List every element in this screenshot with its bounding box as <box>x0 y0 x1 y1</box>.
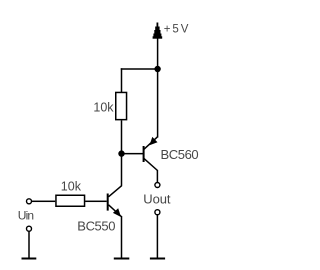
wire: Q1 collector vertical up to junction <box>121 154 123 186</box>
terminal Uout upper <box>155 183 160 188</box>
svg-text:BC560: BC560 <box>161 147 199 162</box>
svg-text:Uout: Uout <box>143 192 171 207</box>
terminal Uin upper <box>27 199 32 204</box>
wire: R2 to Q1 base <box>85 201 107 203</box>
ground (middle) <box>114 258 130 260</box>
wire: R1 top lead <box>121 68 123 92</box>
power +5V symbol <box>153 23 163 39</box>
wire: Q2 collector to Uout terminal <box>157 170 159 182</box>
transistor Q2 BC560 (PNP) <box>143 137 158 171</box>
wire: Q2 base wire <box>122 153 144 155</box>
transistor Q1 BC550 (NPN) <box>107 186 122 217</box>
svg-text:10k: 10k <box>93 100 114 114</box>
wire: Uin lower terminal to ground <box>28 231 30 257</box>
wire: R1 bottom lead <box>121 120 123 153</box>
ground (right) <box>150 258 165 260</box>
wire: +5V rail vertical <box>157 39 159 138</box>
resistor R1 <box>116 92 127 119</box>
wire: Q1 emitter vertical to ground <box>121 216 123 258</box>
resistor R2 <box>56 195 85 206</box>
ground (left) <box>22 258 37 260</box>
svg-text:+ 5 V: + 5 V <box>164 24 189 36</box>
svg-text:10k: 10k <box>61 179 82 193</box>
svg-text:BC550: BC550 <box>77 219 115 234</box>
terminal Uin lower <box>27 226 32 231</box>
svg-text:Uin: Uin <box>18 208 34 222</box>
node: junction dot at R1 / Q2 base / Q1 collector <box>118 150 124 156</box>
terminal Uout lower <box>155 210 160 215</box>
wire: Uout lower terminal to ground <box>157 215 159 258</box>
wire: Uin terminal to R2 <box>32 201 56 203</box>
node: junction dot at rail / R1 branch <box>154 66 160 72</box>
wire: horizontal from rail to R1 top <box>121 68 158 70</box>
